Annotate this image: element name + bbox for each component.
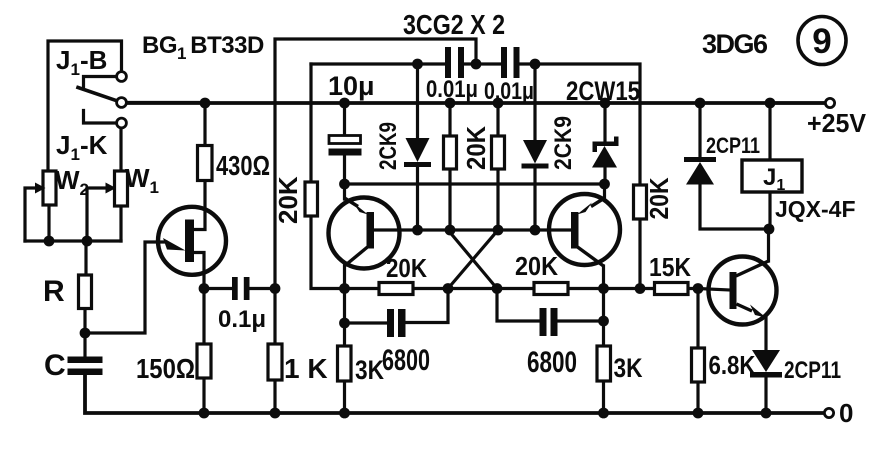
node relay bottom / collector	[764, 224, 775, 235]
diode 2CP11 relay triangle	[686, 162, 714, 185]
diode 2CK9 right leads	[533, 64, 536, 140]
resistor 3K left leads	[343, 323, 346, 346]
wire emitter of BG1	[85, 242, 166, 333]
node T2 collector	[339, 283, 350, 294]
cross-coupling wire a	[448, 230, 498, 289]
potentiometer W2 arrow	[35, 183, 46, 194]
svg-text:430Ω: 430Ω	[216, 150, 270, 181]
resistor 20K outer body	[305, 182, 318, 216]
resistor R body	[79, 275, 92, 309]
svg-text:150Ω: 150Ω	[136, 353, 195, 384]
wire W1 body bottom	[119, 206, 122, 241]
resistor 20K horizontal right body	[534, 283, 568, 295]
svg-text:J1-K: J1-K	[56, 130, 108, 164]
wire 15K to base	[688, 289, 730, 291]
capacitor C plates	[68, 357, 103, 364]
wire bottom rail 0	[85, 375, 824, 413]
transistor Q base bar	[730, 272, 737, 309]
svg-text:3K: 3K	[614, 353, 643, 383]
capacitor 0.01u left plates	[445, 47, 451, 78]
capacitor 0.1u plates	[232, 277, 238, 300]
node 20K / rail	[445, 98, 456, 109]
node 150ohm / bottom rail	[199, 408, 210, 419]
potentiometer W2 body	[43, 171, 56, 205]
resistor 20K output body	[634, 185, 647, 219]
diode 2CK9 left leads	[416, 64, 419, 138]
capacitor 10u top plate	[329, 136, 361, 144]
wire T3 collector down	[602, 266, 605, 289]
wire lower line right	[568, 287, 655, 290]
wire top rail +25V	[126, 101, 825, 105]
transistor Q collector lead	[736, 261, 769, 276]
diode 2CP11 output bar	[750, 372, 782, 378]
capacitor 6800 right plates	[540, 308, 547, 336]
svg-text:3DG6: 3DG6	[702, 29, 768, 59]
potentiometer W1 arrow	[106, 183, 117, 194]
node W2 bottom	[44, 236, 55, 247]
wire T2 collector down	[343, 266, 346, 289]
node base line b	[445, 225, 456, 236]
zener 2CW15 triangle	[592, 146, 617, 168]
capacitor 10u leads	[343, 103, 346, 136]
figure number circle 9	[798, 17, 846, 65]
wire W2 body bottom	[47, 205, 50, 241]
wire 430ohm to base2	[194, 181, 205, 230]
resistor 3K left body	[338, 346, 352, 381]
node 10u / rail	[339, 98, 350, 109]
wire feedback top line	[275, 39, 476, 289]
svg-text:9: 9	[812, 22, 831, 61]
resistor 1K leads	[273, 289, 276, 345]
wire W bottom line	[25, 239, 121, 242]
node 10u bottom	[339, 179, 350, 190]
potentiometer W1 wiper	[87, 188, 108, 241]
resistor 430ohm body	[198, 146, 213, 181]
node Q base	[693, 283, 704, 294]
svg-text:3CG2 X 2: 3CG2 X 2	[403, 9, 505, 40]
node W1 wiper	[82, 236, 93, 247]
resistor 430ohm leads	[203, 103, 206, 146]
switch arm	[78, 88, 116, 101]
resistor 20K mid-right leads	[496, 103, 499, 136]
relay coil J1 box	[742, 160, 802, 192]
svg-text:20K: 20K	[644, 177, 674, 219]
capacitor 0.01u right plates	[501, 47, 507, 78]
transistor T3 emitter arrow	[577, 203, 592, 215]
resistor 150ohm body	[197, 344, 211, 378]
resistor 20K output leads	[638, 219, 641, 289]
resistor 1K body	[268, 344, 282, 380]
transistor Q emitter lead	[737, 304, 753, 311]
transistor T2 emitter lead	[345, 198, 359, 207]
transistor T2 base bar	[367, 212, 375, 249]
node 3K left / bottom rail	[339, 408, 350, 419]
transistor T3 base bar	[571, 212, 579, 249]
node diode right / top line	[530, 59, 541, 70]
svg-text:1 K: 1 K	[284, 353, 328, 384]
resistor 20K mid-right body	[492, 136, 505, 169]
switch contact circles	[117, 72, 835, 418]
node 2CP11 / bottom rail	[761, 408, 772, 419]
svg-text:15K: 15K	[649, 252, 691, 282]
contact J1-B	[117, 72, 127, 82]
svg-text:20K: 20K	[515, 251, 558, 281]
transistor T3 emitter lead	[591, 198, 605, 207]
node cross b	[492, 283, 503, 294]
wire 150ohm leads	[202, 289, 205, 345]
potentiometer W1 body	[115, 171, 128, 206]
transistor Q 3DG6 circle	[709, 257, 777, 325]
relay contact box J1	[48, 41, 122, 171]
wire base1 of BG1	[194, 253, 204, 289]
diode 2CP11 relay leads	[698, 103, 701, 158]
wire long lower line	[311, 216, 379, 289]
node between 0.01u caps	[471, 59, 482, 70]
diode 2CK9 left triangle	[406, 138, 430, 162]
resistor 15K body	[655, 283, 689, 295]
wire switch common to rail	[127, 101, 206, 104]
svg-text:3K: 3K	[355, 355, 384, 385]
node 3K right / bottom rail	[598, 408, 609, 419]
wire node R top	[84, 241, 87, 275]
svg-text:2CP11: 2CP11	[784, 357, 841, 384]
transistor T3 circle	[549, 194, 620, 265]
transistor T2 circle	[329, 198, 400, 269]
svg-text:2CW15: 2CW15	[566, 76, 640, 106]
svg-text:0.1μ: 0.1μ	[218, 306, 266, 333]
transistor Q emitter arrow	[750, 305, 766, 318]
wire bottom contact to W1	[119, 128, 122, 171]
transistor BG1 emitter arrow	[163, 238, 186, 251]
wire to +25V terminal	[770, 101, 825, 104]
node base line a	[412, 225, 423, 236]
node 6800 right	[598, 316, 609, 327]
transistor T2 collector lead	[345, 247, 368, 266]
svg-text:BG1 BT33D: BG1 BT33D	[142, 32, 264, 63]
diode 2CK9 left bar	[404, 162, 431, 167]
cross-coupling wire b	[448, 230, 497, 289]
capacitor 6800 right leads	[497, 289, 540, 322]
svg-text:2CK9: 2CK9	[375, 122, 402, 170]
node cross a	[443, 283, 454, 294]
wire Q collector up	[767, 229, 770, 261]
node base1 junction	[199, 283, 210, 294]
node 6.8K / bottom rail	[693, 408, 704, 419]
wire T3 emitter up	[603, 184, 606, 199]
node 0.1u right	[270, 283, 281, 294]
potentiometer W2 wiper	[25, 188, 38, 241]
diode 2CP11 output triangle	[752, 350, 780, 372]
resistor 3K right leads	[602, 321, 605, 346]
svg-text:0: 0	[839, 398, 853, 428]
svg-text:6.8K: 6.8K	[709, 350, 756, 380]
resistor 20K outer leads	[309, 64, 312, 182]
transistor BG1 base bar	[185, 220, 194, 263]
resistor 20K mid-left leads	[448, 103, 451, 136]
node base line c	[493, 225, 504, 236]
svg-text:J1-B: J1-B	[56, 45, 107, 79]
node 430ohm / rail	[200, 98, 211, 109]
zener 2CW15 bar	[593, 137, 619, 153]
wire Q emitter down / diode 2CP11 out leads	[764, 317, 767, 351]
node T3 collector	[598, 283, 609, 294]
terminal 0	[824, 408, 833, 417]
relay coil J1 leads	[768, 103, 771, 160]
resistor 20K horizontal left body	[379, 283, 413, 295]
node diode / rail	[695, 98, 706, 109]
node base line d	[530, 225, 541, 236]
zener 2CW15 leads	[603, 103, 606, 142]
svg-text:+25V: +25V	[807, 108, 867, 138]
node 6800 left	[339, 318, 350, 329]
capacitor 6800 left plates	[387, 309, 394, 337]
resistor 20K mid-left body	[444, 136, 457, 169]
svg-text:JQX-4F: JQX-4F	[775, 196, 856, 222]
transistor T3 collector lead	[578, 247, 604, 266]
svg-text:20K: 20K	[461, 126, 491, 170]
wire lower line mid	[413, 287, 534, 290]
transistor BG1 circle	[158, 207, 226, 275]
wire internal top line	[311, 62, 446, 65]
diode 2CK9 right bar	[522, 164, 549, 169]
svg-text:R: R	[43, 275, 65, 308]
node diode left / top line	[412, 59, 423, 70]
switch fixed contact stub B	[84, 77, 117, 90]
svg-text:6800: 6800	[382, 344, 430, 377]
diode 2CP11 relay bar	[684, 157, 716, 162]
resistor 6.8K body	[692, 348, 705, 382]
svg-text:0.01μ: 0.01μ	[426, 76, 478, 103]
svg-text:20K: 20K	[273, 176, 303, 224]
svg-text:0.01μ: 0.01μ	[484, 78, 534, 105]
resistor 3K right body	[597, 346, 611, 381]
node 20K / rail	[493, 98, 504, 109]
node 20K output bottom	[635, 283, 646, 294]
terminal +25V	[825, 98, 834, 107]
node relay / rail	[765, 98, 776, 109]
capacitor 0.1u leads	[204, 287, 232, 290]
wire right of 0.01u caps	[518, 64, 640, 185]
node 1K / bottom rail	[270, 408, 281, 419]
capacitor 6800 left leads	[345, 289, 388, 324]
svg-text:20K: 20K	[386, 253, 427, 283]
wire between 0.01u caps	[463, 62, 502, 65]
svg-text:6800: 6800	[527, 346, 577, 379]
svg-text:2CK9: 2CK9	[550, 116, 577, 170]
wire T2 emitter up	[343, 184, 346, 199]
wire base line	[374, 228, 571, 231]
wire R to C	[83, 309, 86, 358]
wire regulated line	[345, 182, 605, 185]
switch fixed contact stub K	[84, 111, 117, 124]
node R bottom	[80, 328, 91, 339]
contact J1-K	[117, 118, 127, 128]
node zener / rail	[600, 98, 611, 109]
node zener bottom	[599, 179, 610, 190]
svg-text:10μ: 10μ	[328, 71, 375, 101]
svg-text:C: C	[44, 349, 66, 382]
diode 2CK9 right triangle	[523, 140, 547, 164]
resistor 6.8K leads	[696, 289, 699, 349]
contact common	[117, 98, 127, 108]
capacitor 10u bottom plate	[329, 149, 362, 156]
transistor T2 emitter arrow	[353, 203, 368, 215]
svg-text:2CP11: 2CP11	[706, 133, 760, 158]
